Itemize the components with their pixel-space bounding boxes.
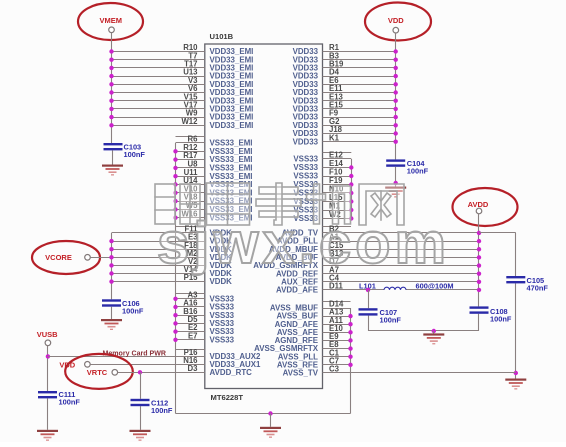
svg-text:AVDD: AVDD — [468, 200, 489, 209]
value 600@100M — [416, 281, 454, 290]
wire pin D5 VSS33 — [173, 315, 234, 328]
wire pin E11 VDD33 — [293, 84, 398, 97]
svg-text:D3: D3 — [188, 364, 199, 373]
power port VRTC — [65, 354, 133, 389]
wire pin R6 VSS33_EMI — [176, 135, 253, 148]
wire VMEM vertical bus — [111, 33, 113, 143]
wire pin C4 AUX_REF — [281, 273, 481, 286]
wire pin B2 AVDD_TV — [282, 225, 481, 238]
capacitor C106 100nF — [102, 299, 144, 316]
wire pin C1 AVSS_PLL — [278, 348, 353, 361]
svg-text:600@100M: 600@100M — [416, 281, 454, 290]
wire pin B19 VDD33 — [293, 60, 398, 73]
power port VUSB — [37, 330, 58, 345]
svg-text:100nF: 100nF — [122, 307, 144, 316]
svg-text:VUSB: VUSB — [37, 330, 58, 339]
wire pin V15 VDD33_EMI — [109, 92, 253, 105]
wire pin T17 VDD33_EMI — [109, 60, 253, 73]
ground below C111 — [37, 430, 58, 441]
capacitor C107 100nF — [359, 308, 402, 325]
capacitor C104 100nF — [386, 159, 428, 176]
svg-text:100nF: 100nF — [59, 398, 81, 407]
wire C104 to ground — [394, 167, 398, 187]
wire VSS33 lower-left box top — [176, 293, 205, 295]
label MT6228T value — [211, 393, 244, 402]
wire pin E6 VDD33 — [293, 76, 398, 89]
wire C111 to ground — [47, 398, 49, 429]
svg-text:100nF: 100nF — [490, 315, 512, 324]
wire pin U14 VSS33_EMI — [173, 176, 252, 189]
wire pin L15 VSS33 — [293, 193, 353, 206]
svg-text:100nF: 100nF — [124, 150, 146, 159]
wire C108 branch — [478, 314, 480, 331]
svg-text:VCORE: VCORE — [45, 253, 72, 262]
svg-text:AVDD_AFE: AVDD_AFE — [276, 286, 318, 295]
wire pin V2 VDDK — [109, 257, 232, 270]
wire pin A1 AVDD_PLL — [277, 233, 481, 246]
wire C106 to ground — [111, 307, 113, 319]
svg-text:VDD: VDD — [388, 16, 404, 25]
wire pin A13 AVSS_BUF — [276, 308, 352, 321]
wire pin R17 VSS33_EMI — [173, 151, 252, 164]
svg-text:VDD33_EMI: VDD33_EMI — [210, 121, 254, 130]
wire pin F18 VDDK — [109, 241, 232, 254]
capacitor C105 470nF — [506, 276, 548, 293]
wire pin A7 AVDD_REF — [276, 265, 481, 278]
inductor L101 label — [359, 281, 376, 290]
svg-text:E7: E7 — [188, 331, 198, 340]
wire pin U8 VSS33_EMI — [173, 160, 252, 173]
wire pin A16 VSS33 — [173, 299, 234, 312]
capacitor C112 100nF — [131, 398, 173, 415]
svg-text:100nF: 100nF — [151, 406, 173, 415]
wire C112 branch — [138, 370, 142, 430]
ground below C104 — [385, 187, 406, 198]
watermark (decorative) — [155, 184, 200, 224]
svg-text:W12: W12 — [181, 117, 198, 126]
wire pin F9 VDD33 — [293, 109, 398, 122]
wire pin W2 VSS33 — [293, 210, 353, 223]
wire pin C7 AVSS_RFE — [277, 356, 353, 369]
wire pin J18 VDD33 — [293, 125, 398, 138]
wire pin V18 VSS33_EMI — [173, 193, 252, 206]
svg-text:VRTC: VRTC — [87, 368, 108, 377]
ground below C112 — [130, 430, 151, 441]
wire AVSS right bus — [323, 302, 351, 414]
wire pin M2 VDDK — [109, 249, 232, 262]
svg-text:C3: C3 — [329, 365, 340, 374]
wire pin E2 VSS33 — [173, 323, 234, 336]
svg-text:AVSS_TV: AVSS_TV — [283, 369, 319, 378]
ground below LC rail — [423, 333, 444, 344]
wire pin A3 VSS33 — [173, 290, 234, 303]
wire pin N10 VSS33 — [293, 185, 353, 198]
wire pin D4 VDD33 — [293, 68, 398, 81]
wire pin E10 AVSS_AFE — [277, 324, 353, 337]
capacitor C103 100nF — [104, 143, 146, 160]
wire pin G2 VDD33 — [293, 117, 398, 130]
wire pin V17 VDD33_EMI — [109, 101, 253, 114]
ground below C106 — [101, 319, 122, 330]
svg-text:100nF: 100nF — [407, 167, 429, 176]
wire C103 to ground — [112, 150, 114, 164]
wire pin C15 AVDD_MBUF — [269, 241, 481, 254]
wire pin E13 VDD33 — [293, 92, 398, 105]
wire pin R12 VSS33_EMI — [173, 143, 252, 156]
wire pin V14 VDDK — [109, 265, 232, 278]
ground right column — [505, 379, 526, 390]
svg-text:VMEM: VMEM — [100, 16, 123, 25]
wire pin R10 VDD33_EMI — [109, 43, 253, 56]
wire pin E7 VSS33 — [173, 331, 234, 344]
svg-text:100nF: 100nF — [380, 316, 402, 325]
wire pin P16 VDD33_AUX2 — [48, 348, 261, 361]
wire pin R1 VDD33 — [293, 43, 398, 56]
power port VMEM — [78, 3, 143, 40]
svg-text:VDD33: VDD33 — [293, 137, 319, 146]
wire LC bottom rail — [368, 329, 479, 334]
svg-text:470nF: 470nF — [527, 284, 549, 293]
power port VCORE — [32, 241, 100, 274]
capacitor C108 100nF — [470, 306, 512, 323]
IC U101B (MT6228T) body — [205, 44, 323, 389]
wire pin D14 AVSS_MBUF — [270, 300, 351, 313]
wire pin B13 AVDD_BUF — [276, 249, 482, 262]
wire pin B3 VDD33 — [293, 51, 398, 64]
svg-text:K1: K1 — [329, 133, 340, 142]
wire pin W5 VSS33_EMI — [173, 201, 252, 214]
wire pin E14 VSS33 — [293, 159, 353, 172]
wire pin M1 VSS33 — [293, 202, 353, 215]
wire C107 branch — [366, 288, 370, 331]
wire pin E15 VDD33 — [293, 101, 398, 114]
wire pin B16 VSS33 — [173, 307, 234, 320]
wire pin W16 VSS33_EMI — [173, 209, 252, 222]
wire pin W12 VDD33_EMI — [109, 117, 253, 130]
wire pin N16 VDD33_AUX1 — [90, 356, 261, 369]
wire pin U13 VDD33_EMI — [109, 68, 253, 81]
svg-text:D11: D11 — [329, 282, 344, 291]
wire pin V6 VDD33_EMI — [109, 84, 253, 97]
wire pin T7 VDD33_EMI — [109, 51, 253, 64]
power port VDD — [365, 3, 431, 41]
wire pin A11 AGND_AFE — [275, 316, 353, 329]
wire VSS33 right bus — [323, 153, 352, 219]
wire pin P15 VDDK — [109, 273, 232, 286]
wire L5 box top — [176, 349, 205, 351]
ground below C103 — [102, 165, 123, 176]
wire pin E8 AVSS_GSMRFTX — [254, 340, 353, 353]
svg-text:VSS33: VSS33 — [210, 335, 235, 344]
wire pin K1 VDD33 — [293, 133, 398, 146]
wire pin C3 AVSS_TV — [283, 365, 516, 378]
svg-text:sjwx.com: sjwx.com — [157, 211, 450, 276]
svg-text:VDDK: VDDK — [210, 277, 233, 286]
wire pin D7 AVDD_GSMRFTX — [253, 257, 481, 270]
wire VCORE to bus — [90, 257, 111, 259]
wire pin V10 VSS33_EMI — [173, 184, 252, 197]
wire bottom ground rail — [176, 411, 351, 427]
wire pin U11 VSS33_EMI — [173, 168, 252, 181]
wire pin E3 VDDK — [109, 233, 232, 246]
svg-text:MT6228T: MT6228T — [211, 393, 244, 402]
wire VCORE vertical bus — [112, 227, 205, 300]
wire pin W9 VDD33_EMI — [109, 109, 253, 122]
wire pin D3 AVDD_RTC — [118, 364, 253, 377]
label U101B — [210, 32, 234, 41]
net label Memory Card PWR — [103, 351, 166, 358]
wire pin F11 VDDK — [112, 225, 233, 238]
svg-text:U101B: U101B — [210, 32, 234, 41]
svg-text:AVDD_RTC: AVDD_RTC — [210, 368, 253, 377]
wire VSS33_EMI left bus — [176, 137, 205, 414]
power port AVDD — [453, 188, 518, 226]
wire VUSB vertical — [46, 346, 50, 391]
wire pin V3 VDD33_EMI — [109, 76, 253, 89]
wire pin F19 VSS33 — [293, 176, 353, 189]
wire pin D11 AVDD_AFE — [276, 282, 481, 295]
capacitor C111 100nF — [38, 390, 80, 407]
wire AVDD vertical bus — [323, 214, 479, 307]
wire pin E12 VSS33 — [293, 151, 351, 164]
wire pin F10 VSS33 — [293, 168, 353, 181]
wire AVDD_TV to C105 branch — [479, 233, 518, 379]
wire VDD vertical bus — [395, 33, 397, 159]
power port VDD (aux) — [59, 360, 90, 369]
ground below rail — [260, 427, 281, 438]
wire pin E9 AGND_RFE — [275, 332, 353, 345]
